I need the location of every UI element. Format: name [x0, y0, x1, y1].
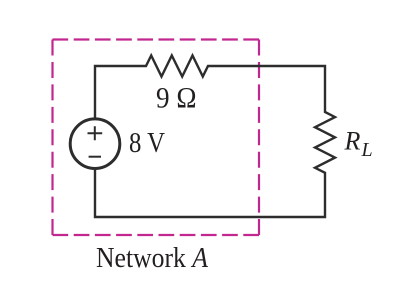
- svg-text:L: L: [361, 139, 373, 161]
- svg-text:9 Ω: 9 Ω: [156, 82, 197, 115]
- svg-text:Network A: Network A: [96, 242, 208, 274]
- svg-text:R: R: [344, 127, 361, 156]
- svg-text:8 V: 8 V: [129, 127, 165, 159]
